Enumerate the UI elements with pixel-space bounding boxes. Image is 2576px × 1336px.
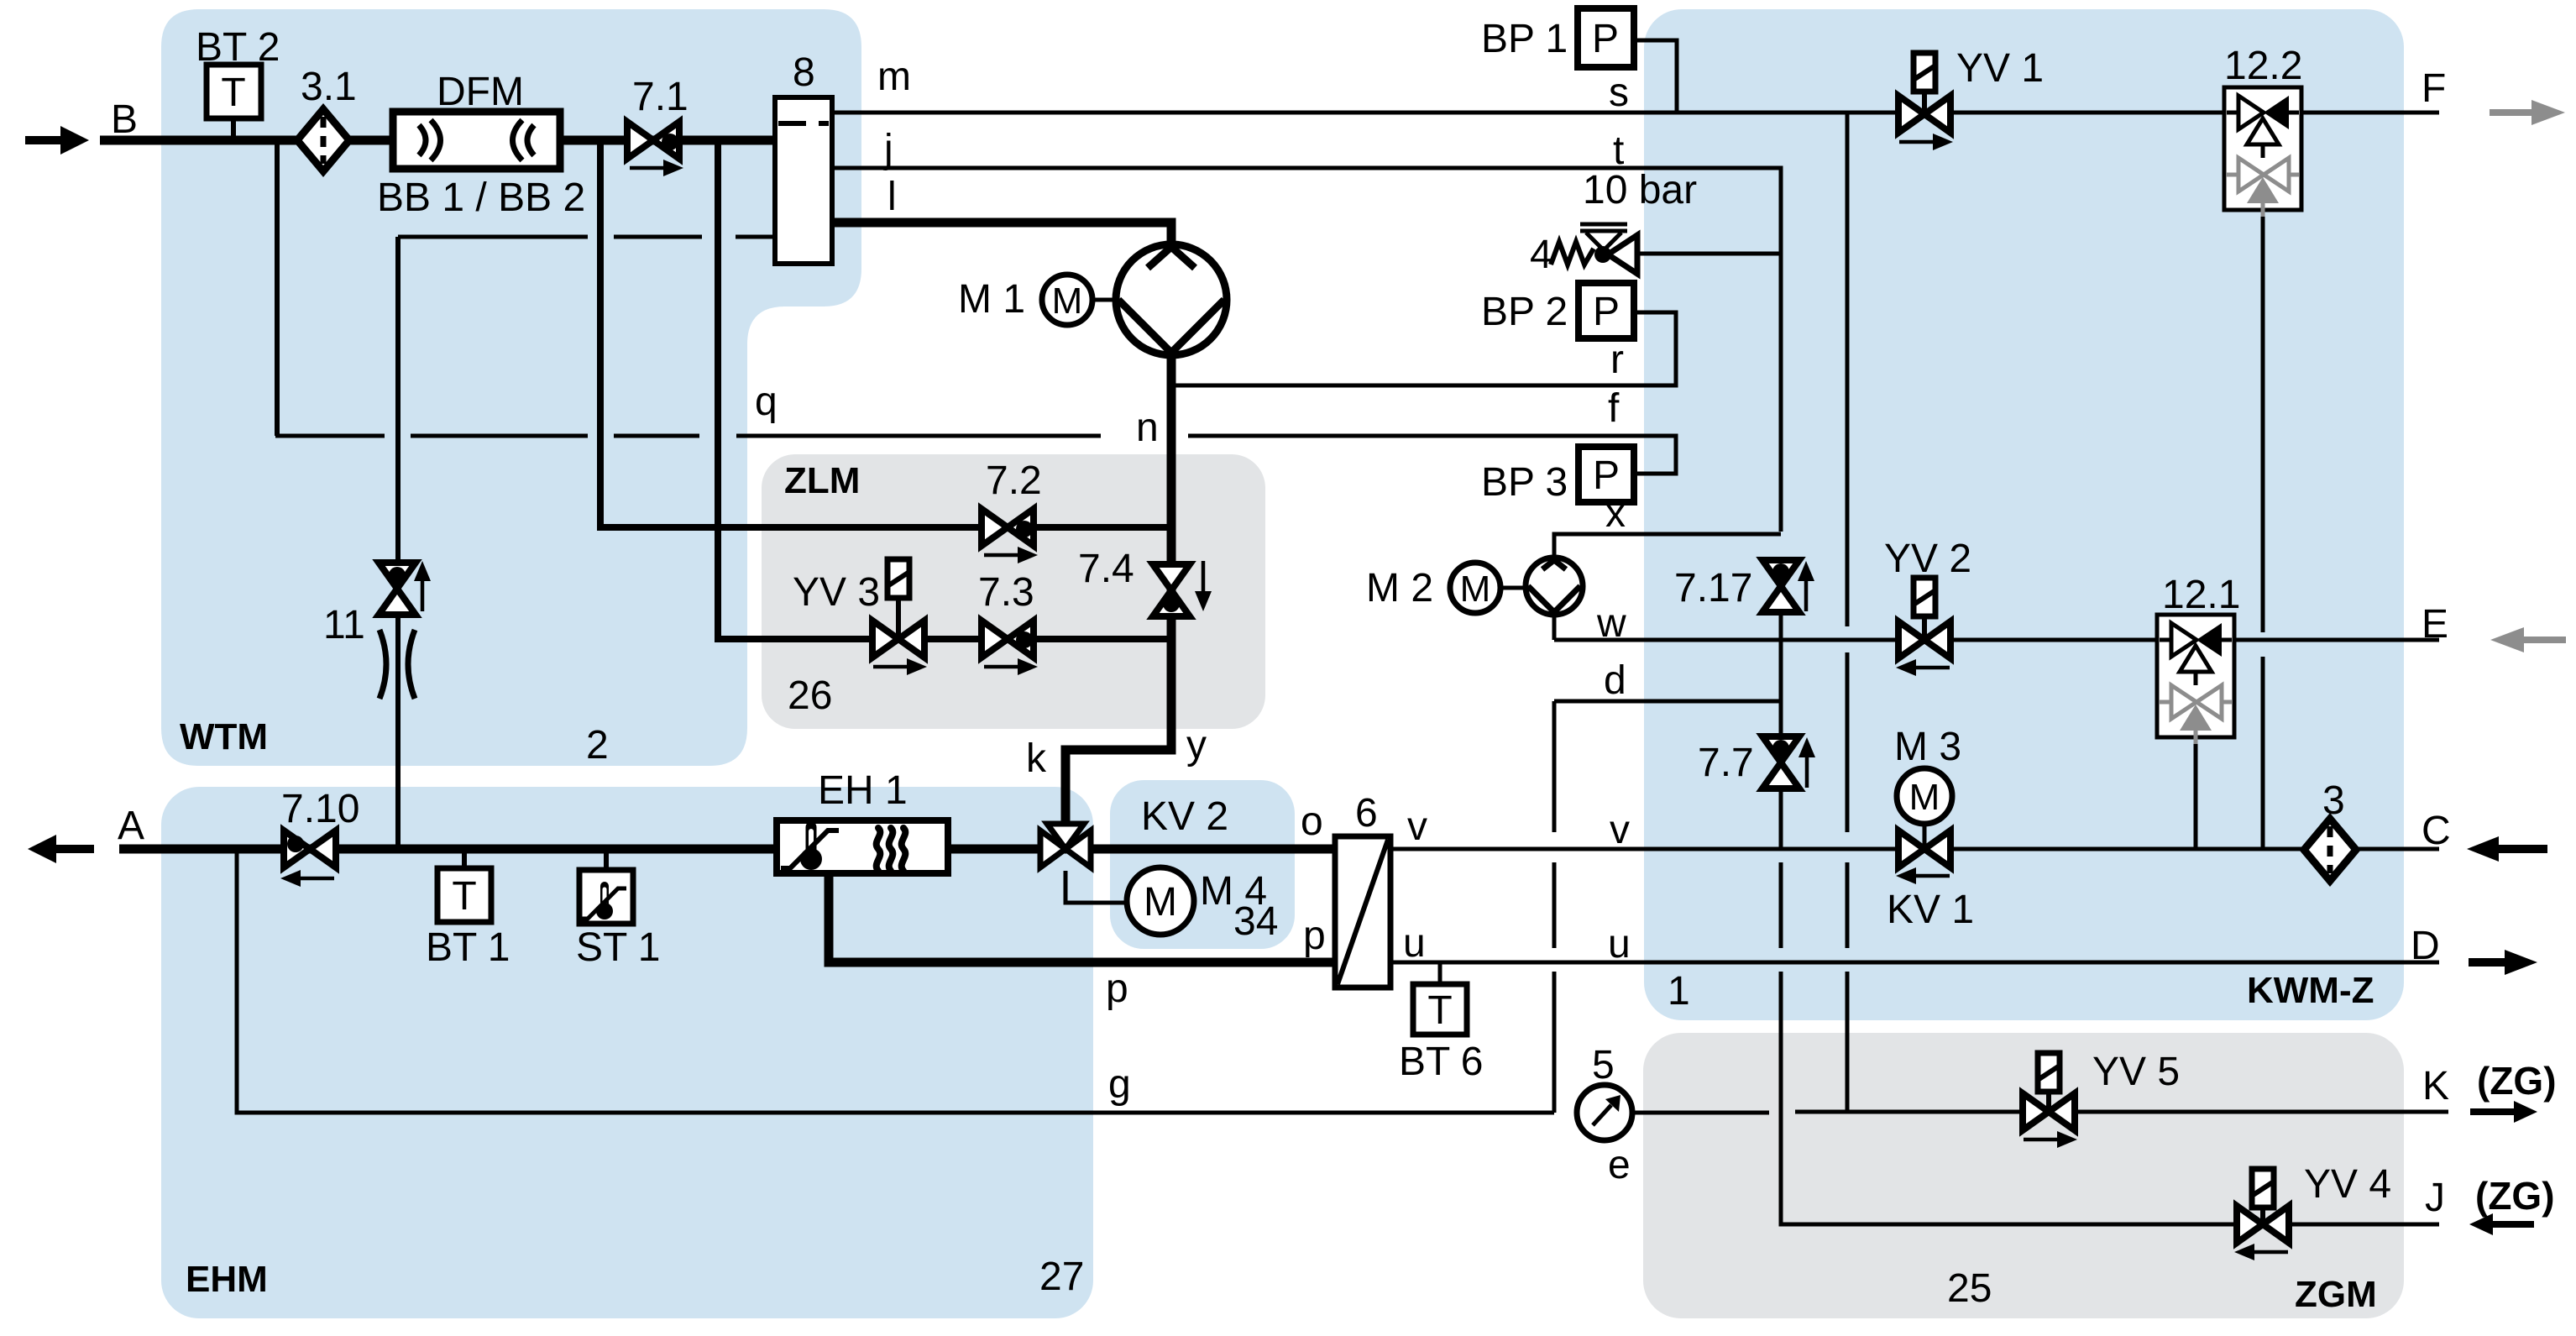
port arrow B inlet xyxy=(25,136,60,144)
port arrow J inlet xyxy=(2493,1221,2534,1228)
valve 7.4 xyxy=(1153,564,1190,590)
wire M3 motor stem xyxy=(1923,824,1927,849)
pump M1 xyxy=(1116,244,1227,355)
filter 3 xyxy=(2304,819,2356,881)
port arrow D outlet xyxy=(2469,958,2505,967)
wire q riser from B line xyxy=(275,140,280,436)
wire M4 motor link xyxy=(1065,871,1127,903)
svg-text:34: 34 xyxy=(1233,899,1278,944)
wire v C line xyxy=(1390,847,2439,851)
svg-text:p: p xyxy=(1106,967,1128,1011)
pressure sensor BP 3 box xyxy=(1579,447,1634,502)
svg-text:26: 26 xyxy=(788,673,832,718)
valve KV 1 xyxy=(1898,830,1924,867)
pipe riser to YV3 line xyxy=(718,140,898,639)
svg-text:7.1: 7.1 xyxy=(632,75,689,119)
svg-text:EH 1: EH 1 xyxy=(818,768,908,813)
svg-text:ST 1: ST 1 xyxy=(576,925,661,970)
temperature sensor BT 6 box xyxy=(1413,984,1467,1035)
svg-text:C: C xyxy=(2422,809,2451,853)
wire 12.1 drop line xyxy=(2194,737,2198,849)
svg-text:BB 1 / BB 2: BB 1 / BB 2 xyxy=(377,176,585,220)
wire ZLM 7.2 line to pump riser xyxy=(1008,524,1171,531)
pressure sensor BP 2 box xyxy=(1579,283,1634,338)
temperature sensor BT 2 box xyxy=(207,65,261,118)
svg-text:10 bar: 10 bar xyxy=(1583,168,1697,212)
svg-text:11: 11 xyxy=(323,603,365,647)
svg-text:E: E xyxy=(2422,602,2448,647)
motor M1 xyxy=(1042,275,1092,325)
svg-text:7.3: 7.3 xyxy=(978,570,1034,615)
svg-text:2: 2 xyxy=(586,723,609,768)
wire V2 from s line down to K line xyxy=(1846,113,1850,1112)
valve 7.17 xyxy=(1762,560,1799,586)
wire m s line xyxy=(832,111,2439,115)
wire u D line xyxy=(1390,961,2439,965)
KV 2 module background region xyxy=(1110,780,1295,949)
svg-text:m: m xyxy=(877,55,911,99)
svg-text:t: t xyxy=(1613,128,1624,173)
wire BT1 tap xyxy=(462,853,467,868)
wire d line xyxy=(1554,699,1781,704)
wire BT6 tap xyxy=(1438,962,1442,984)
svg-text:q: q xyxy=(755,380,778,424)
ZLM module background region xyxy=(762,454,1265,729)
svg-text:M: M xyxy=(1909,777,1940,818)
svg-text:P: P xyxy=(1593,290,1620,334)
pipe l line from vessel to pump M1 xyxy=(832,223,1171,249)
solenoid valve YV 4 xyxy=(2260,1208,2265,1224)
wire V1 through valve 7.17 to w line xyxy=(1779,557,1783,640)
svg-text:T: T xyxy=(452,874,476,919)
svg-text:J: J xyxy=(2425,1176,2445,1220)
svg-text:u: u xyxy=(1403,921,1426,966)
svg-text:p: p xyxy=(1303,914,1326,958)
port arrow E outlet gray xyxy=(2524,637,2566,643)
svg-text:A: A xyxy=(118,804,144,848)
vessel 8 xyxy=(775,97,832,264)
svg-text:T: T xyxy=(1427,988,1452,1033)
valve 7.2 xyxy=(982,509,1008,546)
svg-text:w: w xyxy=(1596,601,1626,646)
svg-text:KV 1: KV 1 xyxy=(1887,888,1974,932)
svg-text:7.10: 7.10 xyxy=(281,787,359,831)
wire valve-11 riser xyxy=(395,237,401,849)
svg-text:YV 3: YV 3 xyxy=(793,570,880,615)
electric heater EH 1 box xyxy=(777,820,948,873)
wire 12.2 drop line xyxy=(2261,210,2265,849)
svg-text:(ZG): (ZG) xyxy=(2477,1059,2557,1103)
svg-text:n: n xyxy=(1136,406,1159,450)
svg-text:4: 4 xyxy=(1530,233,1552,277)
svg-text:M 3: M 3 xyxy=(1894,725,1961,769)
wire relief valve line xyxy=(1636,252,1781,256)
limit thermostat ST 1 box xyxy=(579,870,633,924)
wire V1 w to 7.7 to v line xyxy=(1779,640,1783,849)
wire BT2 tap xyxy=(231,118,236,136)
svg-text:7.4: 7.4 xyxy=(1078,547,1134,591)
svg-text:3: 3 xyxy=(2322,778,2345,823)
solenoid valve YV 1 xyxy=(1922,92,1927,114)
motor M3 xyxy=(1897,768,1952,824)
svg-text:D: D xyxy=(2411,924,2440,968)
pipe p line from EH1 to heat exchanger xyxy=(829,873,1335,962)
svg-text:v: v xyxy=(1610,808,1630,852)
svg-text:12.2: 12.2 xyxy=(2224,44,2302,88)
svg-text:BP 1: BP 1 xyxy=(1481,17,1568,61)
wire J line right of YV4 xyxy=(2263,1223,2439,1227)
svg-text:1: 1 xyxy=(1668,969,1690,1014)
check unit 12.1 xyxy=(2157,615,2234,737)
filter 3.1 xyxy=(297,109,349,171)
svg-text:x: x xyxy=(1605,491,1626,536)
svg-text:F: F xyxy=(2422,66,2446,111)
svg-text:K: K xyxy=(2422,1064,2449,1108)
wire gauge to K line xyxy=(1632,1112,2448,1113)
check unit 12.2 xyxy=(2224,87,2301,210)
svg-text:y: y xyxy=(1186,723,1207,768)
svg-text:e: e xyxy=(1608,1143,1631,1187)
pipe B main line xyxy=(100,136,775,145)
wire q line xyxy=(275,434,1101,438)
motor M4 xyxy=(1127,867,1194,935)
svg-text:o: o xyxy=(1301,799,1323,844)
wire 7.3 to pump riser line xyxy=(1008,636,1171,642)
svg-text:T: T xyxy=(221,71,245,115)
wire ST1 tap xyxy=(604,853,609,870)
wire r line to BP2 xyxy=(1174,312,1676,385)
wire n f line to BP3 xyxy=(1188,436,1676,474)
svg-text:27: 27 xyxy=(1039,1255,1084,1299)
wire V1 lower segments to J line xyxy=(1781,862,2263,1224)
svg-text:M: M xyxy=(1052,280,1083,322)
svg-text:WTM: WTM xyxy=(180,716,268,757)
port arrow A outlet xyxy=(56,845,94,853)
svg-text:BT 2: BT 2 xyxy=(196,25,280,70)
svg-text:P: P xyxy=(1592,17,1619,61)
valve 11 with flex connectors xyxy=(379,563,416,589)
valve 7.7 xyxy=(1762,736,1799,762)
wire g line from A line to d riser xyxy=(237,849,1554,1113)
valve 7.10 xyxy=(284,830,310,867)
svg-text:(ZG): (ZG) xyxy=(2475,1174,2555,1218)
port arrow F outlet gray xyxy=(2490,109,2531,116)
svg-text:KV 2: KV 2 xyxy=(1141,794,1228,839)
svg-text:EHM: EHM xyxy=(186,1259,268,1300)
svg-text:M: M xyxy=(1460,568,1491,610)
wire x line to pump M2 xyxy=(1554,534,1781,559)
ZGM module background region xyxy=(1643,1033,2404,1318)
svg-text:YV 4: YV 4 xyxy=(2304,1162,2391,1207)
valve 7.3 xyxy=(982,621,1008,658)
svg-text:g: g xyxy=(1108,1062,1131,1107)
svg-text:r: r xyxy=(1610,338,1624,382)
wire YV3 to 7.3 line xyxy=(898,636,1008,642)
port arrow K outlet xyxy=(2470,1108,2514,1115)
svg-text:BP 3: BP 3 xyxy=(1481,460,1568,505)
three-way valve KV 2 xyxy=(1040,830,1065,867)
svg-text:ZGM: ZGM xyxy=(2295,1274,2377,1315)
heat exchanger 6 xyxy=(1335,836,1390,988)
svg-text:f: f xyxy=(1608,386,1620,431)
svg-text:k: k xyxy=(1026,736,1047,781)
svg-text:M 1: M 1 xyxy=(958,277,1025,322)
svg-text:v: v xyxy=(1407,804,1427,849)
svg-text:DFM: DFM xyxy=(437,70,524,114)
EHM module background region xyxy=(161,787,1093,1318)
solenoid valve YV 5 xyxy=(2046,1092,2051,1112)
relief valve 4 xyxy=(1551,242,1594,265)
wire j t line with riser V1 xyxy=(832,168,1781,532)
svg-text:BP 2: BP 2 xyxy=(1481,290,1568,334)
svg-text:ZLM: ZLM xyxy=(784,460,860,501)
wire M2 motor link xyxy=(1500,586,1527,590)
svg-text:6: 6 xyxy=(1355,791,1378,836)
svg-text:M: M xyxy=(1144,880,1177,925)
flow meter DFM box xyxy=(393,112,560,169)
valve 7.1 xyxy=(627,122,653,159)
wire BP1 connector to s line xyxy=(1634,40,1677,113)
pressure sensor BP 1 box xyxy=(1578,8,1634,67)
svg-text:7.7: 7.7 xyxy=(1698,741,1754,785)
solenoid valve YV 2 xyxy=(1922,616,1927,640)
WTM module background region xyxy=(161,9,861,766)
svg-text:YV 5: YV 5 xyxy=(2092,1050,2180,1094)
svg-text:BT 1: BT 1 xyxy=(426,925,510,970)
svg-text:YV 2: YV 2 xyxy=(1884,537,1971,581)
svg-text:12.1: 12.1 xyxy=(2162,573,2240,617)
svg-text:25: 25 xyxy=(1947,1266,1992,1311)
wire d riser at 1851 xyxy=(1552,701,1557,1113)
pressure gauge 5 xyxy=(1577,1085,1632,1140)
solenoid valve YV 3 xyxy=(896,598,901,639)
svg-text:7.17: 7.17 xyxy=(1674,566,1752,610)
wire vessel drain line y282 xyxy=(398,235,775,239)
svg-text:3.1: 3.1 xyxy=(301,65,357,109)
pipe A line xyxy=(119,845,1335,854)
wire w line from pump M2 xyxy=(1554,613,2439,640)
svg-text:B: B xyxy=(111,97,138,142)
svg-text:l: l xyxy=(887,175,897,219)
svg-text:KWM-Z: KWM-Z xyxy=(2247,970,2374,1011)
svg-text:5: 5 xyxy=(1592,1043,1615,1087)
svg-text:7.2: 7.2 xyxy=(986,458,1042,503)
svg-text:M 2: M 2 xyxy=(1366,566,1433,610)
svg-text:j: j xyxy=(882,127,893,171)
motor M2 xyxy=(1450,563,1500,613)
pipe pump M1 outlet down through 7.4 to k line xyxy=(1065,351,1171,825)
svg-text:u: u xyxy=(1608,922,1631,967)
pump M2 xyxy=(1526,558,1583,615)
port arrow C inlet xyxy=(2499,845,2547,853)
pipe riser to ZLM 7.2 line xyxy=(600,140,1008,527)
svg-text:YV 1: YV 1 xyxy=(1956,46,2044,91)
wire M1 motor link xyxy=(1092,298,1118,302)
svg-text:d: d xyxy=(1604,658,1626,703)
KWM-Z module background region xyxy=(1644,9,2404,1020)
svg-text:s: s xyxy=(1609,71,1629,115)
svg-text:8: 8 xyxy=(793,50,815,95)
temperature sensor BT 1 box xyxy=(437,868,491,922)
svg-text:BT 6: BT 6 xyxy=(1399,1040,1484,1084)
